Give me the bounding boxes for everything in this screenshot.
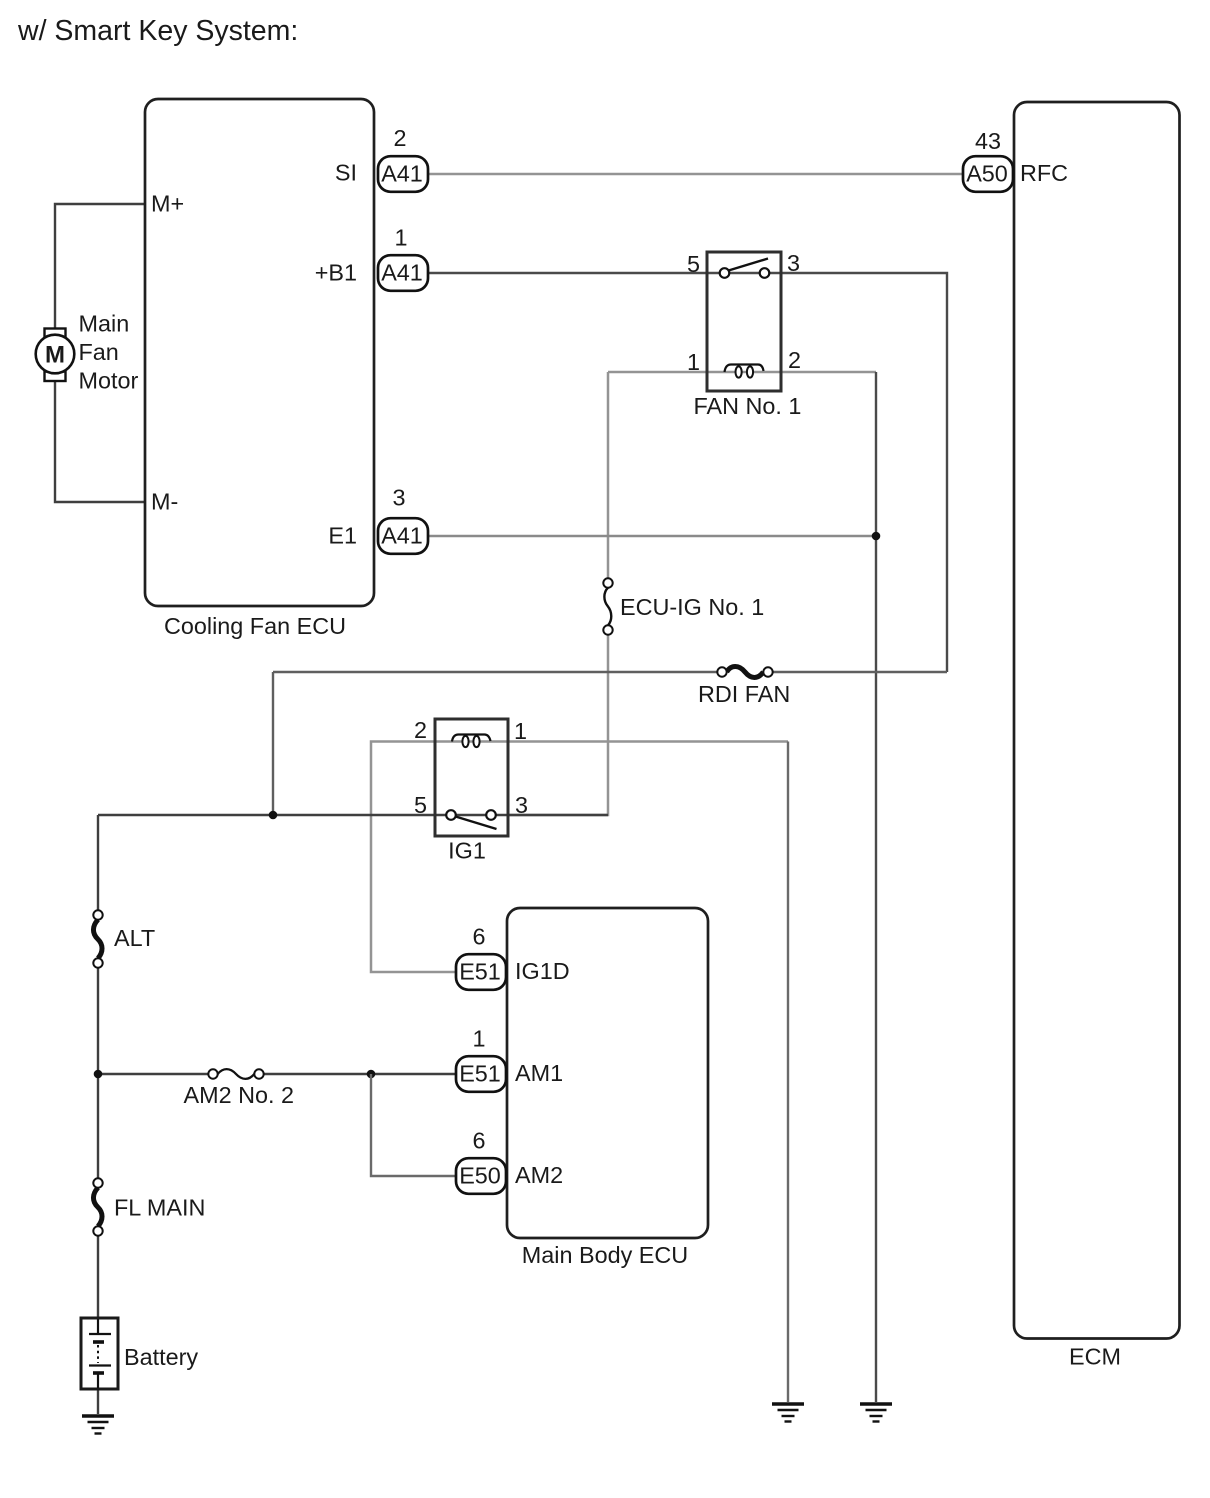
svg-text:A41: A41 [381,523,423,549]
svg-text:Main: Main [79,311,130,337]
wire FAN coil pins 1-2 [608,371,876,374]
svg-text:3: 3 [787,250,800,276]
motor M circle [36,329,75,382]
Main Body ECU box [507,908,708,1268]
svg-text:SI: SI [335,160,357,186]
IG1 coil symbol [452,735,491,742]
relay IG1 [414,717,528,864]
svg-text:2: 2 [393,125,406,151]
svg-text:E51: E51 [459,1061,501,1087]
wire FAN pin2 down to ground [875,372,877,1402]
svg-text:1: 1 [687,349,700,375]
svg-text:Cooling Fan ECU: Cooling Fan ECU [164,613,346,639]
junction dot RDI FAN leg on y815 [269,811,278,820]
svg-text:5: 5 [414,792,427,818]
svg-text:FL MAIN: FL MAIN [114,1195,205,1221]
connector oval A41 pin1 +B1 [378,225,428,291]
wire +B1 to FAN relay switch to down [429,273,947,672]
FAN coil symbol [725,365,764,373]
svg-text:2: 2 [788,347,801,373]
svg-text:2: 2 [414,717,427,743]
fuse AM2 No. 2 [184,1069,295,1108]
IG1 switch arm [456,817,497,830]
IG1 switch contact 5 [446,810,456,820]
svg-text:3: 3 [392,485,405,511]
wire RDI FAN left leg down [272,672,274,815]
connector oval E50 pin6 AM2 [456,1128,506,1194]
svg-text:A50: A50 [966,161,1008,187]
wire M+ motor loop [55,204,145,502]
ground IG1 coil (x788) [772,1404,804,1422]
wire AM2 branch down to E50 [371,1074,455,1176]
svg-text:AM2: AM2 [515,1162,563,1188]
svg-text:Battery: Battery [124,1344,198,1370]
relay FAN No. 1 [687,250,801,419]
wire battery to ground [97,1389,99,1414]
junction dot right on AM2 row [367,1070,376,1079]
fuse RDI FAN [698,667,790,707]
wire battery vertical x98 [97,815,99,1318]
wire IG1 coil row: pin2 left leg to IG1D, pin1 to right [371,742,788,973]
svg-text:ECM: ECM [1069,1344,1121,1370]
connector oval E51 pin1 AM1 [456,1026,506,1092]
Cooling Fan ECU box [145,99,374,606]
fusible link ALT [93,910,155,967]
wire RDI FAN horizontal [273,671,947,673]
svg-text:E51: E51 [459,959,501,985]
junction dot left on AM2 row [94,1070,103,1079]
svg-text:FAN No. 1: FAN No. 1 [694,393,802,419]
svg-text:1: 1 [394,225,407,251]
svg-text:5: 5 [687,251,700,277]
svg-text:Fan: Fan [79,339,119,365]
wire AM2 No.2 row y1074 [98,1073,455,1075]
connector oval A50 pin43 RFC [963,128,1013,192]
svg-text:M+: M+ [151,191,184,217]
wire E1 [429,535,876,538]
FAN switch contact 5 [720,268,730,278]
connector oval A41 pin3 E1 [378,485,428,554]
fuse ECU-IG No. 1 [603,578,764,634]
ground below battery [82,1416,114,1434]
svg-text:IG1D: IG1D [515,958,570,984]
svg-text:RFC: RFC [1020,160,1068,186]
wire IG1 switch row y815 [98,814,608,816]
svg-text:6: 6 [472,924,485,950]
junction dot E1/fan ground line [872,532,881,541]
wire IG1 pin1 down to ground [787,742,789,1403]
FAN switch contact 3 [760,268,770,278]
svg-text:+B1: +B1 [315,260,357,286]
svg-text:ECU-IG No. 1: ECU-IG No. 1 [620,594,764,620]
IG1 switch contact 3 [486,810,496,820]
wire FAN pin1 down to IG1 pin3 [508,372,608,815]
battery [81,1318,198,1389]
svg-text:M: M [45,342,65,369]
svg-text:AM1: AM1 [515,1060,563,1086]
svg-text:Main Body ECU: Main Body ECU [522,1242,688,1268]
svg-text:A41: A41 [381,260,423,286]
connector oval E51 pin6 IG1D [456,924,506,990]
svg-text:1: 1 [472,1026,485,1052]
connector oval A41 pin2 SI [378,125,428,192]
svg-text:43: 43 [975,128,1001,154]
ground FAN coil (x876) [860,1404,892,1422]
svg-text:6: 6 [472,1128,485,1154]
svg-text:M-: M- [151,489,178,515]
svg-text:E50: E50 [459,1163,501,1189]
svg-text:AM2 No. 2: AM2 No. 2 [184,1082,295,1108]
wire SI to RFC [429,173,962,176]
svg-text:IG1: IG1 [448,838,486,864]
svg-text:1: 1 [514,718,527,744]
svg-text:E1: E1 [328,523,357,549]
svg-text:ALT: ALT [114,925,155,951]
FAN switch arm [729,259,769,271]
fusible link FL MAIN [93,1178,205,1235]
svg-text:A41: A41 [381,161,423,187]
svg-text:Motor: Motor [79,368,139,394]
svg-text:RDI FAN: RDI FAN [698,681,790,707]
svg-text:w/ Smart Key System:: w/ Smart Key System: [17,15,298,47]
ECM box [1014,102,1180,1370]
svg-text:3: 3 [515,792,528,818]
